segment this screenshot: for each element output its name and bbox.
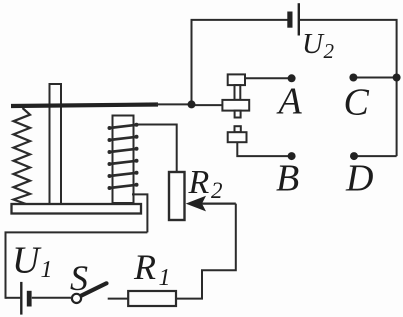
wire: top left from junction up to U2 bbox=[192, 20, 289, 105]
node C terminal dot bbox=[349, 74, 357, 82]
switch S lever bbox=[81, 283, 107, 296]
wire: arrow line from slider to the right bbox=[202, 203, 236, 205]
spring bbox=[14, 108, 31, 204]
coil winding turn 1 bbox=[108, 123, 139, 130]
relay moving contact: top square bbox=[228, 74, 245, 85]
relay fixed contact: nub bbox=[235, 126, 241, 132]
svg-text:D: D bbox=[345, 158, 373, 200]
relay moving contact: wide bar bbox=[222, 100, 249, 111]
svg-text:2: 2 bbox=[324, 39, 335, 63]
battery U1 short thick plate bbox=[27, 291, 32, 307]
rheostat R2 body bbox=[169, 172, 185, 220]
wire: C to right rail bbox=[353, 77, 396, 79]
wire: coil bottom right down to bottom rail bbox=[132, 194, 147, 232]
junction dot at armature bbox=[188, 100, 196, 108]
svg-text:R: R bbox=[133, 247, 156, 287]
svg-text:B: B bbox=[276, 158, 299, 200]
wire: battery U1 to switch bbox=[32, 297, 72, 299]
wire: armature to junction bbox=[156, 103, 192, 105]
battery U2 short thick plate bbox=[287, 12, 292, 28]
svg-text:C: C bbox=[344, 82, 370, 124]
node B terminal dot bbox=[288, 152, 296, 160]
electromagnet coil core bbox=[113, 116, 134, 204]
svg-text:U: U bbox=[12, 240, 42, 282]
svg-text:U: U bbox=[302, 28, 325, 60]
wire: coil top to R2 top bbox=[134, 125, 177, 173]
resistor R1 body bbox=[128, 291, 176, 306]
rheostat arrow head bbox=[186, 196, 206, 212]
wire: D to right rail bbox=[354, 155, 397, 157]
wire: from arrow down to R1 bbox=[176, 204, 236, 299]
wire: bottom contact down and to B bbox=[237, 142, 291, 156]
pivot post of relay bbox=[50, 84, 62, 204]
wire: armature junction to moving contact bbox=[192, 104, 223, 106]
switch S pivot circle bbox=[72, 294, 81, 303]
wire: U1 left plate to left rail bbox=[6, 297, 21, 299]
node A terminal dot bbox=[288, 74, 296, 82]
wire: left rail and bottom rail of coil circuit bbox=[6, 232, 148, 298]
coil winding turn 2 bbox=[108, 135, 139, 142]
relay moving contact: upper link bbox=[235, 85, 241, 100]
battery U1 long thin plate bbox=[20, 282, 22, 315]
relay base plate bbox=[12, 204, 142, 214]
svg-text:R: R bbox=[188, 164, 210, 201]
svg-text:1: 1 bbox=[159, 265, 171, 291]
junction dot on right rail bbox=[393, 74, 401, 82]
svg-text:A: A bbox=[276, 81, 303, 123]
armature bar bbox=[11, 105, 158, 107]
relay fixed contact: bottom square bbox=[228, 132, 247, 142]
coil winding turn 3 bbox=[108, 147, 139, 154]
coil winding turn 4 bbox=[108, 159, 139, 166]
battery U2 long thin plate bbox=[298, 3, 300, 35]
node D terminal dot bbox=[350, 152, 358, 160]
svg-text:S: S bbox=[70, 258, 88, 298]
coil winding turn 5 bbox=[108, 171, 139, 178]
wire: R1 left to switch bbox=[108, 298, 129, 300]
coil winding turn 6 bbox=[108, 183, 139, 190]
wire: top contact to A bbox=[245, 77, 292, 79]
svg-text:1: 1 bbox=[41, 257, 53, 283]
svg-text:2: 2 bbox=[211, 178, 223, 203]
wire: from U2 right along top and down right rail bbox=[300, 20, 397, 156]
relay moving contact: lower stub bbox=[235, 111, 241, 118]
